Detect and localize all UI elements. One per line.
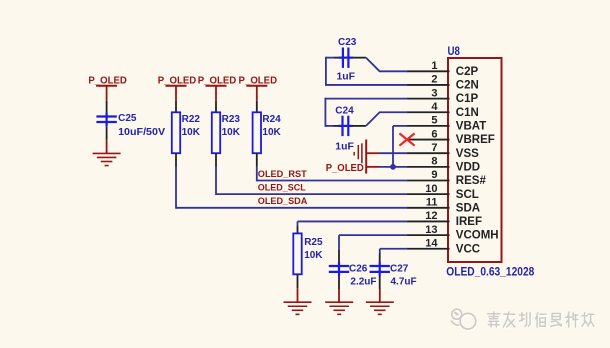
capacitor C23 [334,48,366,68]
svg-text:C2N: C2N [456,80,479,92]
pin number 9 [431,169,437,181]
value 1uF (C24) [335,141,354,152]
wire C24 left loop to pin3 net [325,98,407,127]
pin name C1P [456,93,479,105]
label P_OLED #2 [158,76,197,87]
svg-text:11: 11 [426,197,438,209]
pin name SCL [456,189,479,201]
svg-text:VBREF: VBREF [456,134,495,146]
svg-text:VDD: VDD [456,161,480,173]
svg-text:OLED_SDA: OLED_SDA [258,196,308,206]
value 10K (R25) [304,250,323,261]
pin 13 VCOMH stub [407,234,450,236]
value 4.7uF [391,277,417,288]
pin number 2 [431,74,437,86]
svg-text:C26: C26 [349,264,368,275]
wire R25 to ground (red) [297,288,299,302]
svg-text:10K: 10K [262,127,281,138]
part label OLED_0.63_12028 [446,265,534,279]
IC U8 body [448,58,502,262]
ground (R25) [284,302,312,314]
resistor R24 [253,101,261,167]
pin number 11 [426,197,438,209]
svg-text:R24: R24 [262,114,281,125]
capacitor C26 [329,250,349,289]
wire pin5 VBAT down to VDD node [393,126,408,167]
pin number 10 [425,183,437,195]
wire C27 to ground (red) [379,289,381,302]
wire pin13 VCOMH to C26 [339,235,408,250]
pin 4 C1N stub [407,111,450,113]
pin number 13 [425,224,437,236]
value 10K (R22) [182,127,201,138]
svg-text:P_OLED: P_OLED [88,76,127,87]
pin number 3 [431,87,437,99]
svg-text:14: 14 [425,237,438,249]
svg-text:P_OLED: P_OLED [198,76,237,87]
pin name VDD [456,161,480,173]
svg-text:C24: C24 [335,106,354,117]
svg-text:5: 5 [431,115,437,127]
svg-text:10: 10 [425,183,437,195]
resistor R23 [212,101,220,167]
svg-text:8: 8 [431,156,437,168]
pin name SDA [456,202,480,214]
wire P_OLED to pin7 VSS [366,152,407,154]
svg-text:P_OLED: P_OLED [158,76,197,87]
label P_OLED #4 [239,76,278,87]
svg-text:3: 3 [431,87,437,99]
pin name VSS [456,148,479,160]
svg-text:C1N: C1N [456,107,479,119]
svg-text:IREF: IREF [456,216,482,228]
pin name C2N [456,80,479,92]
pin name C1N [456,107,479,119]
svg-text:4.7uF: 4.7uF [391,277,417,288]
svg-text:C1P: C1P [456,93,479,105]
pin number 4 [431,101,438,113]
svg-text:SCL: SCL [456,189,479,201]
pin 5 VBAT stub [407,125,450,127]
pin 2 C2N stub [407,84,450,86]
pin number 5 [431,115,437,127]
svg-text:R23: R23 [222,114,241,125]
pin number 1 [431,60,437,72]
pin name VCC [456,243,480,255]
label C24 [335,106,354,117]
power port P_OLED #2 [166,86,187,101]
pin 10 SCL stub [407,193,450,195]
wire P_OLED to pin8 VDD [366,166,407,168]
wire C26 to ground (red) [338,289,340,302]
wire R23 to pin10 net [216,167,408,195]
value 10uF/50V [118,127,165,138]
svg-text:10K: 10K [222,127,241,138]
wire pin12 IREF to R25 [298,221,408,226]
svg-text:C2P: C2P [456,66,479,78]
value 1uF (C23) [337,72,356,83]
pin name VBAT [456,121,486,133]
svg-text:1: 1 [431,60,437,72]
svg-text:7: 7 [431,142,437,154]
svg-text:2: 2 [431,74,437,86]
pin 7 VSS stub [407,152,450,154]
svg-text:OLED_0.63_12028: OLED_0.63_12028 [446,265,534,279]
svg-text:P_OLED: P_OLED [326,163,364,174]
pin number 6 [431,128,437,140]
label C23 [338,37,357,48]
resistor R22 [172,101,180,167]
wire C24 to pin4 (diagonal) [366,112,408,126]
ground (C27) [366,302,394,314]
svg-text:VCOMH: VCOMH [456,230,499,242]
svg-text:2.2uF: 2.2uF [350,277,376,288]
pin 1 C2P stub [407,70,450,72]
label C26 [349,264,368,275]
svg-text:13: 13 [425,224,437,236]
svg-text:R25: R25 [304,237,323,248]
svg-text:OLED_RST: OLED_RST [258,169,308,179]
value 10K (R24) [262,127,281,138]
net label OLED_SCL [258,183,306,193]
pin 6 VBREF stub [407,139,450,141]
svg-text:VCC: VCC [456,243,480,255]
wire R22 to pin11 net [176,167,408,209]
svg-text:10uF/50V: 10uF/50V [118,127,165,138]
label P_OLED #3 [198,76,237,87]
ground (C25) [93,153,121,165]
pin name VCOMH [456,230,499,242]
svg-text:9: 9 [431,169,437,181]
svg-text:C27: C27 [390,264,409,275]
svg-text:12: 12 [425,210,437,222]
capacitor C27 [370,254,390,290]
pin name VBREF [456,134,495,146]
svg-text:6: 6 [431,128,437,140]
label C27 [390,264,409,275]
pin number 7 [431,142,437,154]
pin 11 SDA stub [407,207,450,209]
power port P_OLED #4 [246,86,267,101]
pin 3 C1P stub [407,98,450,100]
capacitor C25 [96,101,116,140]
pin 12 IREF stub [407,220,450,222]
junction VDD node [390,164,396,170]
pin number 12 [425,210,437,222]
power port P_OLED #3 [206,86,227,101]
designator U8 [448,44,461,58]
svg-text:4: 4 [431,101,438,113]
svg-text:VBAT: VBAT [456,121,486,133]
power port P_OLED (VSS/VDD) bars [354,140,366,174]
net label OLED_RST [258,169,308,179]
value 2.2uF [350,277,376,288]
label R25 [304,237,323,248]
wire C23 to pin1 (diagonal) [366,58,408,72]
label C25 [118,113,137,124]
svg-text:R22: R22 [182,114,201,125]
label R22 [182,114,201,125]
pin number 8 [431,156,437,168]
svg-text:SDA: SDA [456,202,480,214]
label P_OLED #1 [88,76,127,87]
wire C25 to ground (red) [106,140,108,154]
no-connect X on pin6 VBREF [399,133,414,145]
svg-text:OLED_SCL: OLED_SCL [258,183,306,193]
wire C23 left loop to pin2 net [326,57,408,86]
svg-text:C23: C23 [338,37,357,48]
capacitor C24 [333,116,366,136]
net label OLED_SDA [258,196,308,206]
label R23 [222,114,241,125]
resistor R25 [293,226,301,288]
power port P_OLED #1 [96,86,117,101]
pin 8 VDD stub [407,166,450,168]
pin number 14 [425,237,438,249]
wire R24 to pin9 net [257,167,408,182]
svg-text:10K: 10K [182,127,201,138]
svg-text:10K: 10K [304,250,323,261]
pin 14 VCC stub [407,248,450,250]
pin name RES# [456,175,487,187]
label P_OLED (VSS/VDD) [326,163,364,174]
ground (C26) [325,302,353,314]
pin name IREF [456,216,482,228]
svg-text:1uF: 1uF [337,72,356,83]
svg-text:C25: C25 [118,113,137,124]
wire pin14 VCC to C27 [380,249,408,254]
svg-text:U8: U8 [448,44,461,58]
svg-text:RES#: RES# [456,175,487,187]
pin 9 RES# stub [407,180,450,182]
value 10K (R23) [222,127,241,138]
svg-text:P_OLED: P_OLED [239,76,278,87]
svg-text:VSS: VSS [456,148,479,160]
pin name C2P [456,66,479,78]
label R24 [262,114,281,125]
svg-text:1uF: 1uF [335,141,354,152]
watermark logo and text (decorative) [452,309,595,330]
